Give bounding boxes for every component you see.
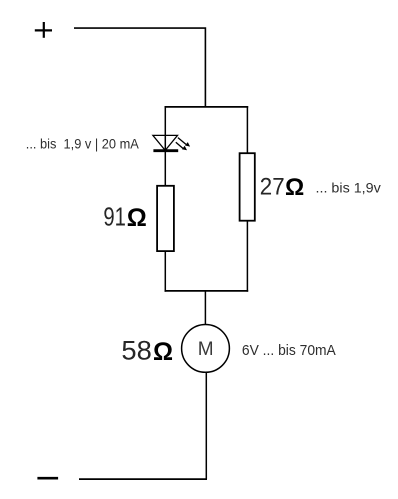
svg-text:Ω: Ω — [127, 204, 147, 232]
svg-text:Ω: Ω — [285, 174, 304, 201]
svg-text:58: 58 — [121, 336, 151, 366]
svg-text:M: M — [198, 339, 214, 360]
LED light arrow 1 — [178, 138, 190, 147]
resistor R1 91Ω body — [157, 186, 174, 251]
LED D1 cathode bar — [153, 149, 178, 152]
svg-text:27: 27 — [260, 174, 285, 201]
motor M body circle — [182, 325, 230, 373]
wire bottom node to motor — [204, 291, 206, 325]
svg-text:... bis 1,9v: ... bis 1,9v — [316, 180, 381, 196]
wire from plus terminal to top node — [74, 28, 205, 107]
resistor R2 27Ω body — [240, 153, 255, 221]
wire top of left branch into LED — [164, 106, 166, 150]
minus terminal — [37, 477, 58, 480]
svg-text:... bis 1,9 v | 20 mA: ... bis 1,9 v | 20 mA — [26, 135, 140, 151]
wire below resistor 91 to bottom bar — [164, 251, 166, 292]
wire below resistor 27 to bottom bar — [246, 221, 248, 292]
svg-text:91: 91 — [103, 202, 126, 232]
plus terminal — [35, 22, 52, 38]
wire bottom rail toward minus terminal — [79, 478, 207, 480]
svg-text:Ω: Ω — [153, 338, 173, 366]
LED light arrow 2 — [176, 142, 187, 150]
svg-text:6V ... bis 70mA: 6V ... bis 70mA — [242, 342, 336, 359]
wire motor to bottom rail — [205, 372, 207, 479]
wire top bar joining parallel branches — [165, 106, 249, 108]
wire top of right branch — [246, 106, 248, 153]
LED D1 triangle — [153, 135, 178, 150]
wire bottom bar joining parallel branches — [165, 290, 249, 292]
wire LED to resistor 91 — [164, 151, 166, 186]
